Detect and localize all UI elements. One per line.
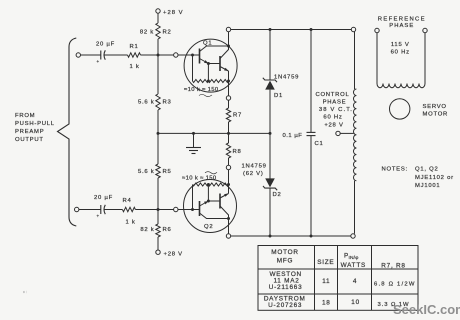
svg-text:PHASE: PHASE bbox=[389, 23, 414, 29]
+28V terminal bottom bbox=[156, 250, 160, 254]
svg-text:R7: R7 bbox=[233, 113, 242, 119]
resistor R7 bbox=[226, 108, 242, 122]
wire bbox=[157, 178, 159, 224]
svg-text:82 k: 82 k bbox=[140, 227, 154, 233]
svg-text:U-207263: U-207263 bbox=[268, 302, 302, 309]
svg-text:PUSH-PULL: PUSH-PULL bbox=[15, 121, 55, 127]
node middle-rail left end bbox=[157, 132, 160, 135]
resistor R8 bbox=[226, 143, 241, 158]
wire bbox=[157, 39, 159, 94]
svg-text:1 k: 1 k bbox=[126, 220, 136, 226]
svg-text:11: 11 bbox=[322, 278, 330, 285]
svg-text:Q2: Q2 bbox=[204, 224, 213, 230]
svg-text:PREAMP: PREAMP bbox=[15, 129, 44, 135]
wire into Q1 base bbox=[178, 54, 200, 56]
resistor R2 bbox=[140, 23, 172, 39]
node R1/R2/R3 junction bbox=[157, 54, 160, 57]
svg-text:U-211663: U-211663 bbox=[269, 284, 303, 291]
capacitor C1 0.1uF bbox=[283, 132, 324, 147]
input brace bbox=[58, 38, 77, 226]
wire bbox=[269, 30, 271, 81]
wire bbox=[81, 54, 101, 56]
diode D1 1N4759 bbox=[263, 75, 299, 100]
svg-text:20 µF: 20 µF bbox=[96, 42, 115, 48]
diode D2 1N4759 (62 V) bbox=[242, 164, 282, 199]
svg-text:R7, R8: R7, R8 bbox=[381, 263, 405, 270]
resistor R4 bbox=[122, 198, 135, 226]
svg-text:SeekIC.com: SeekIC.com bbox=[393, 302, 460, 317]
svg-text:60 Hz: 60 Hz bbox=[391, 50, 410, 56]
node C1 top bbox=[310, 28, 313, 31]
svg-text:20 µF: 20 µF bbox=[94, 195, 113, 201]
svg-text:MJE1102 or: MJE1102 or bbox=[415, 175, 454, 181]
svg-text:PHASE: PHASE bbox=[323, 100, 347, 106]
svg-text:R2: R2 bbox=[163, 30, 172, 36]
svg-text:R5: R5 bbox=[163, 169, 172, 175]
resistor R6 bbox=[140, 224, 171, 237]
capacitor 20uF bottom bbox=[94, 195, 113, 219]
svg-text:c:: c: bbox=[23, 289, 28, 294]
wire bbox=[105, 209, 123, 211]
svg-text:82 k: 82 k bbox=[140, 30, 154, 36]
wire bbox=[228, 122, 230, 143]
wire bbox=[105, 54, 128, 56]
wire bbox=[269, 133, 271, 179]
svg-text:6.8 Ω 1/2W: 6.8 Ω 1/2W bbox=[374, 282, 416, 288]
svg-text:+28 V: +28 V bbox=[324, 123, 343, 129]
terminal Q2 collector bbox=[226, 234, 230, 238]
resistor R3 bbox=[138, 94, 172, 110]
motor table bbox=[258, 246, 418, 311]
svg-text:R6: R6 bbox=[163, 227, 172, 233]
terminal winding bottom bbox=[351, 234, 355, 238]
svg-text:SERVO: SERVO bbox=[423, 104, 447, 110]
svg-text:1 k: 1 k bbox=[130, 64, 140, 70]
svg-text:R3: R3 bbox=[163, 100, 172, 106]
svg-text:115 V: 115 V bbox=[391, 42, 410, 48]
terminal reference left bbox=[375, 28, 379, 32]
svg-text:5.6 k: 5.6 k bbox=[138, 100, 155, 106]
wire bbox=[157, 237, 159, 250]
ground bbox=[186, 133, 201, 153]
svg-text:REFERENCE: REFERENCE bbox=[378, 17, 426, 23]
wire bbox=[135, 209, 175, 211]
svg-text:MOTOR: MOTOR bbox=[271, 249, 298, 256]
svg-text:1N4759: 1N4759 bbox=[274, 75, 299, 81]
wire bbox=[269, 90, 271, 134]
svg-text:≈10 k ≈ 150: ≈10 k ≈ 150 bbox=[182, 176, 217, 182]
svg-text:MFG: MFG bbox=[277, 257, 293, 264]
notes bbox=[382, 167, 454, 190]
node middle rail / diode junction bbox=[269, 132, 272, 135]
svg-text:MJ1001: MJ1001 bbox=[415, 183, 440, 189]
svg-text:D2: D2 bbox=[273, 192, 282, 198]
wire bbox=[79, 209, 101, 211]
svg-text:(62 V): (62 V) bbox=[243, 171, 264, 177]
wire bbox=[310, 136, 312, 236]
input terminal bottom bbox=[75, 207, 79, 211]
svg-text:SIZE: SIZE bbox=[317, 259, 334, 266]
node C1 bottom bbox=[310, 235, 313, 238]
terminal Q2 emitter bbox=[226, 165, 230, 169]
svg-text:C1: C1 bbox=[315, 141, 324, 147]
svg-text:≈10 k ≈ 150: ≈10 k ≈ 150 bbox=[184, 87, 219, 93]
+28V terminal top bbox=[156, 9, 160, 13]
wire bbox=[157, 110, 159, 164]
svg-text:NOTES:: NOTES: bbox=[382, 167, 408, 173]
terminal reference right bbox=[423, 28, 427, 32]
wire center tap bbox=[340, 132, 353, 134]
svg-text:+: + bbox=[97, 214, 100, 219]
svg-text:+28 V: +28 V bbox=[163, 10, 184, 16]
wire bbox=[269, 188, 271, 236]
terminal Q1 emitter bbox=[226, 96, 230, 100]
terminal Q1 base bbox=[174, 53, 178, 57]
from push-pull preamp output label bbox=[15, 113, 55, 143]
wire bbox=[228, 158, 230, 165]
wire bbox=[157, 13, 159, 23]
capacitor 20uF top bbox=[96, 42, 115, 65]
svg-text:38 V C.T.: 38 V C.T. bbox=[319, 107, 353, 113]
node ground junction bbox=[192, 132, 195, 135]
svg-text:5.6 k: 5.6 k bbox=[138, 169, 155, 175]
resistor R1 bbox=[128, 44, 141, 70]
inductor control winding bbox=[354, 32, 357, 234]
center tap terminal +28V bbox=[336, 131, 340, 135]
wire top rail bbox=[231, 29, 352, 31]
node D1 top bbox=[269, 28, 272, 31]
wire bbox=[228, 100, 230, 108]
svg-text:10: 10 bbox=[351, 299, 360, 306]
terminal Q1 collector bbox=[226, 27, 230, 31]
op Q2 darlington transistor bbox=[182, 170, 237, 234]
node D2 bottom bbox=[269, 235, 272, 238]
svg-text:Q1, Q2: Q1, Q2 bbox=[415, 167, 439, 173]
svg-text:OUTPUT: OUTPUT bbox=[15, 137, 44, 143]
svg-text:4: 4 bbox=[353, 278, 357, 285]
svg-text:D1: D1 bbox=[274, 93, 283, 99]
svg-text:R4: R4 bbox=[123, 198, 132, 204]
svg-text:18: 18 bbox=[322, 299, 331, 306]
svg-text:0.1 µF: 0.1 µF bbox=[283, 133, 303, 139]
input terminal top bbox=[76, 53, 80, 57]
resistor R5 bbox=[138, 164, 172, 178]
wire middle rail bbox=[158, 132, 270, 134]
svg-text:+: + bbox=[97, 59, 100, 64]
wire into Q2 base bbox=[178, 209, 200, 211]
svg-text:R8: R8 bbox=[233, 149, 242, 155]
servo motor bbox=[390, 99, 449, 119]
svg-text:WATTS: WATTS bbox=[341, 262, 366, 269]
wire bottom rail bbox=[231, 235, 351, 237]
reference phase transformer winding bbox=[377, 33, 425, 88]
svg-text:+28 V: +28 V bbox=[164, 251, 183, 257]
node output rail bbox=[227, 132, 230, 135]
svg-text:R1: R1 bbox=[130, 44, 139, 50]
reference phase labels bbox=[378, 17, 426, 30]
svg-text:CONTROL: CONTROL bbox=[315, 92, 349, 98]
control phase labels bbox=[315, 92, 353, 129]
node R4/R5/R6 junction bbox=[157, 208, 160, 211]
wire bbox=[310, 30, 312, 133]
wire bbox=[141, 54, 176, 56]
svg-text:1N4759: 1N4759 bbox=[242, 164, 267, 170]
svg-text:60 Hz: 60 Hz bbox=[323, 115, 342, 121]
terminal Q2 base bbox=[174, 207, 178, 211]
svg-text:MOTOR: MOTOR bbox=[423, 112, 449, 118]
svg-text:FROM: FROM bbox=[15, 113, 35, 119]
terminal winding top bbox=[351, 27, 355, 31]
op Q1 darlington transistor bbox=[184, 32, 237, 97]
